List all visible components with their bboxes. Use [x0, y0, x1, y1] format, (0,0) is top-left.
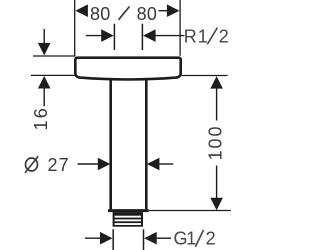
flange-bottom extension line right: [182, 75, 228, 77]
dim 16 top arrow: [43, 29, 45, 44]
Ø27 leader left + arrow: [78, 163, 100, 165]
R1/2 right leader + arrow: [143, 29, 156, 42]
G1/2 tick right: [143, 229, 145, 250]
G1/2 right leader + arrow: [144, 232, 157, 245]
pipe left edge: [109, 79, 112, 210]
svg-text:80: 80: [90, 4, 111, 24]
R1/2 left leader + arrow: [86, 35, 103, 37]
dimension 80/80 left arrow: [75, 4, 88, 17]
G1/2 tick left: [112, 229, 114, 250]
dim 100 bottom arrow: [216, 166, 218, 200]
pipe bottom shoulder: [108, 209, 149, 212]
slash of 80/80: [119, 7, 130, 20]
svg-text:1: 1: [186, 228, 196, 248]
svg-text:R: R: [184, 26, 197, 46]
svg-text:80: 80: [137, 4, 158, 24]
R1/2 tick left: [113, 24, 115, 50]
dim 16 bottom arrow: [38, 76, 51, 89]
dimension 80/80 right arrow: [167, 4, 180, 17]
thread stub: [113, 212, 143, 227]
G1/2 left leader + arrow: [85, 237, 102, 239]
svg-text:16: 16: [31, 106, 51, 130]
svg-text:100: 100: [206, 125, 226, 161]
label R1/2: [184, 26, 229, 46]
label G1/2: [174, 228, 216, 248]
svg-text:1: 1: [198, 26, 208, 46]
svg-text:2: 2: [219, 26, 229, 46]
shoulder extension line right: [149, 210, 231, 212]
label Ø (drawn): [25, 156, 38, 173]
flange-bottom extension line left: [31, 74, 76, 76]
extension line left vertical (80/80 left): [74, 0, 76, 56]
pipe right edge: [145, 79, 148, 210]
R1/2 tick right: [141, 24, 143, 50]
svg-text:2: 2: [206, 228, 216, 248]
svg-text:27: 27: [48, 155, 70, 175]
extension line right vertical (80/80 right): [179, 0, 181, 56]
ceiling extension line left: [33, 55, 76, 57]
flange (escutcheon side view): [75, 58, 180, 80]
dimension 80/80 right tail: [159, 10, 168, 12]
dim 100 top arrow: [210, 76, 223, 89]
Ø27 leader right + arrow: [147, 158, 160, 171]
